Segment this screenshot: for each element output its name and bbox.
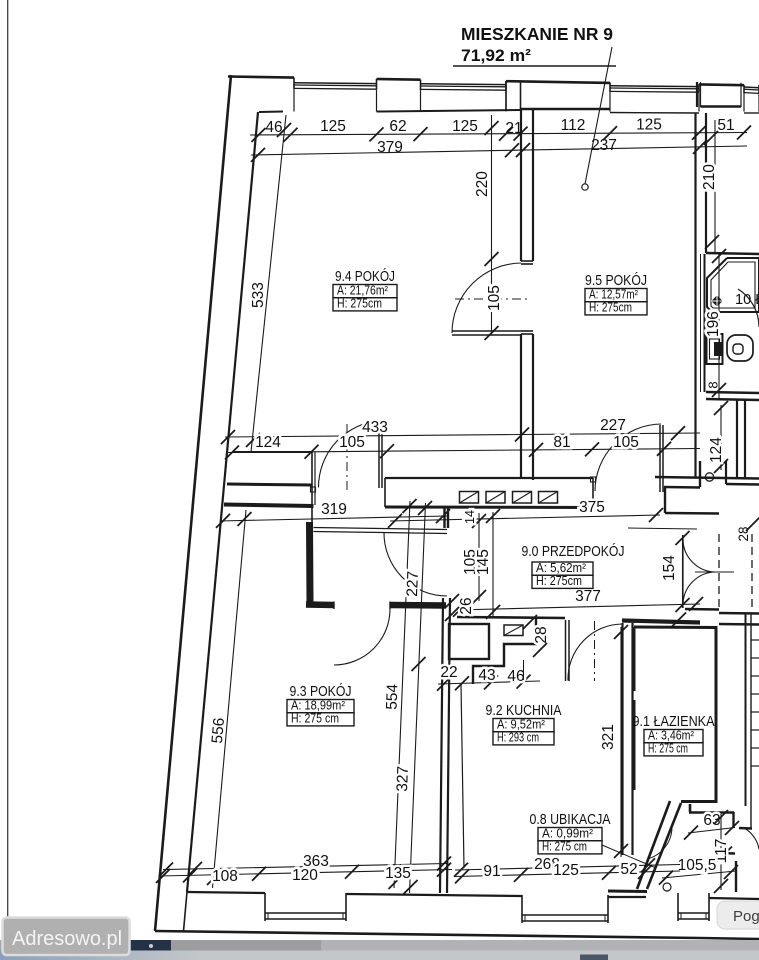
svg-text:124: 124 xyxy=(708,437,725,463)
svg-text:533: 533 xyxy=(250,282,267,308)
svg-text:H: 275 cm: H: 275 cm xyxy=(648,742,688,756)
svg-text:9.5 POKÓJ: 9.5 POKÓJ xyxy=(585,272,647,289)
svg-text:108: 108 xyxy=(212,868,238,885)
svg-text:135: 135 xyxy=(385,865,411,882)
svg-text:375: 375 xyxy=(579,499,605,516)
svg-text:26: 26 xyxy=(458,597,475,614)
svg-text:105: 105 xyxy=(486,285,503,311)
svg-text:52: 52 xyxy=(620,861,637,878)
svg-text:321: 321 xyxy=(600,724,617,750)
svg-text:51: 51 xyxy=(717,117,734,134)
svg-text:A: 9,52m²: A: 9,52m² xyxy=(497,718,545,732)
svg-text:A: 12,57m²: A: 12,57m² xyxy=(589,288,638,302)
svg-text:210: 210 xyxy=(701,164,718,190)
svg-text:220: 220 xyxy=(474,171,491,197)
svg-text:62: 62 xyxy=(389,118,406,135)
svg-text:28: 28 xyxy=(533,626,550,643)
svg-text:91: 91 xyxy=(483,863,500,880)
svg-text:227: 227 xyxy=(600,417,626,434)
svg-text:227: 227 xyxy=(404,571,422,597)
svg-text:9.0 PRZEDPOKÓJ: 9.0 PRZEDPOKÓJ xyxy=(522,543,625,560)
svg-text:10 Ł: 10 Ł xyxy=(735,292,759,308)
svg-text:124: 124 xyxy=(255,434,281,451)
svg-text:327: 327 xyxy=(394,766,412,792)
svg-text:9.3 POKÓJ: 9.3 POKÓJ xyxy=(290,683,352,700)
svg-text:105,5: 105,5 xyxy=(678,857,717,874)
svg-text:H: 275cm: H: 275cm xyxy=(536,574,582,588)
svg-text:Pog: Pog xyxy=(733,908,759,925)
svg-text:81: 81 xyxy=(553,434,570,451)
svg-text:9.1 ŁAZIENKA: 9.1 ŁAZIENKA xyxy=(633,713,715,730)
svg-text:H: 275cm: H: 275cm xyxy=(337,297,382,311)
svg-text:14: 14 xyxy=(463,510,477,524)
svg-text:A: 21,76m²: A: 21,76m² xyxy=(337,284,388,298)
svg-text:H: 293 cm: H: 293 cm xyxy=(497,731,539,745)
svg-text:237: 237 xyxy=(591,137,617,154)
svg-text:H: 275 cm: H: 275 cm xyxy=(291,712,339,726)
svg-text:9.4 POKÓJ: 9.4 POKÓJ xyxy=(335,268,395,285)
svg-text:Adresowo.pl: Adresowo.pl xyxy=(12,928,122,950)
svg-text:9.2 KUCHNIA: 9.2 KUCHNIA xyxy=(486,702,562,719)
svg-text:71,92 m²: 71,92 m² xyxy=(461,46,531,65)
svg-text:379: 379 xyxy=(377,139,403,156)
svg-text:MIESZKANIE NR 9: MIESZKANIE NR 9 xyxy=(461,24,613,44)
svg-text:154: 154 xyxy=(661,555,678,581)
svg-text:125: 125 xyxy=(320,118,346,135)
svg-text:A: 3,46m²: A: 3,46m² xyxy=(648,729,694,743)
svg-text:125: 125 xyxy=(553,862,579,879)
svg-text:H: 275cm: H: 275cm xyxy=(589,301,632,315)
svg-text:145: 145 xyxy=(475,549,492,575)
svg-text:433: 433 xyxy=(362,419,388,436)
svg-text:105: 105 xyxy=(339,434,365,451)
svg-text:22: 22 xyxy=(440,664,457,681)
svg-text:8: 8 xyxy=(706,381,721,388)
svg-text:21: 21 xyxy=(505,120,522,137)
svg-text:125: 125 xyxy=(636,117,662,134)
svg-text:A: 5,62m²: A: 5,62m² xyxy=(536,561,586,575)
svg-text:125: 125 xyxy=(452,118,478,135)
svg-text:A: 18,99m²: A: 18,99m² xyxy=(291,699,345,713)
svg-text:556: 556 xyxy=(209,717,228,744)
svg-text:554: 554 xyxy=(384,683,402,710)
svg-text:H: 275 cm: H: 275 cm xyxy=(542,840,587,854)
svg-text:377: 377 xyxy=(575,588,601,605)
svg-text:120: 120 xyxy=(292,867,318,884)
svg-text:105: 105 xyxy=(613,434,639,451)
svg-text:319: 319 xyxy=(321,501,347,518)
svg-text:46: 46 xyxy=(507,668,524,685)
svg-text:196: 196 xyxy=(705,311,722,337)
svg-text:A: 0,99m²: A: 0,99m² xyxy=(542,827,593,841)
svg-text:0.8 UBIKACJA: 0.8 UBIKACJA xyxy=(530,811,611,828)
svg-text:112: 112 xyxy=(561,117,586,134)
svg-text:43: 43 xyxy=(478,667,495,684)
